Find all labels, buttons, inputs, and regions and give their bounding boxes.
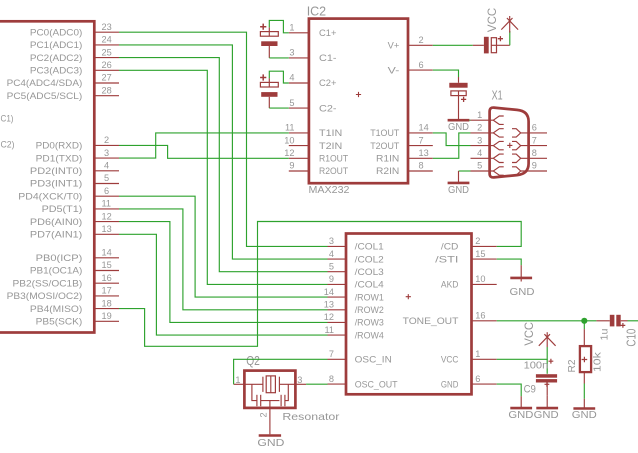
wire Q2 pin 1 to OSC_IN [234, 359, 328, 384]
svg-text:R2IN: R2IN [376, 166, 399, 176]
IC2 pin 10 T2IN [284, 135, 342, 151]
svg-text:7: 7 [419, 135, 424, 145]
svg-text:9: 9 [329, 274, 334, 284]
IC3 pin 5 /COL3 [328, 261, 384, 277]
wire PC2 to /COL3 [119, 58, 328, 272]
ground GND (below C4) [448, 96, 470, 134]
svg-text:PB3(MOSI/OC2): PB3(MOSI/OC2) [7, 291, 83, 301]
svg-text:GND: GND [510, 287, 535, 298]
svg-text:OSC_OUT: OSC_OUT [355, 379, 398, 389]
svg-text:16: 16 [102, 273, 112, 283]
svg-text:10k: 10k [591, 351, 603, 372]
IC1 pin 25 PC2(ADC2) [30, 47, 119, 63]
svg-text:14: 14 [102, 248, 112, 258]
wire C3 to VCC [509, 31, 511, 45]
svg-text:5: 5 [289, 98, 294, 108]
svg-text:3: 3 [289, 48, 294, 58]
Q2 value label Resonator [282, 412, 340, 423]
wire PD0 (RXD) to IC2 R1OUT [119, 145, 289, 158]
svg-text:24: 24 [102, 35, 112, 45]
IC2 pin 1 C1+ [289, 23, 337, 39]
svg-text:9: 9 [532, 161, 537, 171]
svg-text:PB4(MISO): PB4(MISO) [30, 304, 82, 314]
ground GND (below R2) [572, 399, 597, 421]
resonator Q2 body [244, 371, 295, 408]
svg-text:12: 12 [324, 312, 334, 322]
IC1 pin 17 PB3(MOSI/OC2) [7, 286, 119, 302]
svg-text:/ROW1: /ROW1 [355, 292, 384, 302]
svg-text:4: 4 [289, 73, 294, 83]
wire Q2 pin 3 to OSC_OUT [306, 383, 327, 385]
svg-text:1: 1 [477, 110, 482, 120]
svg-text:6: 6 [532, 123, 537, 133]
IC3 pin 14 /ROW1 [324, 287, 384, 303]
svg-text:GND: GND [572, 410, 597, 421]
svg-text:12: 12 [102, 211, 112, 221]
svg-text:10: 10 [284, 135, 294, 145]
op-amp/IC U2 MAX232 box [309, 19, 408, 184]
svg-text:/ROW4: /ROW4 [355, 330, 384, 340]
IC1 pin 4 PD2(INT0) [30, 161, 119, 177]
svg-text:C2-: C2- [319, 103, 337, 113]
capacitor C4 (V- to GND) [449, 77, 467, 102]
wire R2 to GND [583, 384, 585, 399]
svg-text:2: 2 [419, 35, 424, 45]
svg-text:VCC: VCC [485, 7, 499, 32]
svg-text:PD5(T1): PD5(T1) [42, 204, 83, 214]
IC3 pin 4 /COL2 [328, 249, 384, 265]
svg-text:/COL2: /COL2 [355, 254, 384, 264]
svg-text:Q2: Q2 [246, 354, 260, 368]
IC3 pin 3 /COL1 [328, 236, 384, 252]
wire PC3 to /COL4 [119, 70, 328, 284]
svg-text:C1+: C1+ [319, 28, 337, 38]
C9 value label 100n [524, 360, 549, 371]
wire PD7 to /ROW4 [119, 234, 328, 335]
svg-text:17: 17 [102, 286, 112, 296]
pin label C2) (cut) [1, 139, 15, 149]
svg-text:100n: 100n [524, 360, 549, 371]
svg-text:PD7(AIN1): PD7(AIN1) [30, 230, 82, 240]
IC1 pin 15 PB1(OC1A) [30, 260, 119, 276]
svg-text:5: 5 [104, 173, 109, 183]
IC3 origin cross [406, 294, 411, 299]
svg-text:26: 26 [102, 60, 112, 70]
Q2 crystal symbol [244, 376, 295, 393]
wire C1 top to IC2 pin 1 [269, 20, 289, 32]
wire junction to R2 [583, 321, 585, 329]
svg-text:T2IN: T2IN [319, 141, 342, 151]
IC3 pin 8 OSC_OUT [328, 374, 398, 390]
svg-text:8: 8 [532, 148, 537, 158]
svg-text:15: 15 [475, 249, 485, 259]
IC3 pin 9 /COL4 [328, 274, 384, 290]
svg-text:5: 5 [477, 161, 482, 171]
svg-text:Resonator: Resonator [282, 412, 340, 423]
svg-text:PB0(ICP): PB0(ICP) [36, 253, 83, 263]
Q2 reference label [246, 354, 260, 368]
IC3 pin 1 VCC [441, 349, 497, 365]
svg-text:13: 13 [102, 224, 112, 234]
X1 pin 9 [512, 161, 547, 176]
ground GND (below /STI) [510, 265, 535, 298]
svg-text:3: 3 [297, 375, 302, 385]
svg-text:13: 13 [419, 148, 429, 158]
svg-text:V-: V- [388, 65, 400, 75]
svg-text:MAX232: MAX232 [309, 185, 350, 196]
IC3 pin 10 AKD [441, 274, 497, 290]
svg-text:C10: C10 [625, 329, 638, 347]
IC1 pin 27 PC4(ADC4/SDA) [7, 73, 119, 89]
wire PD5 to /ROW2 [119, 209, 328, 310]
svg-text:2: 2 [475, 236, 480, 246]
IC1 pin 28 PC5(ADC5/SCL) [7, 85, 119, 101]
ground GND (below C9) [534, 396, 559, 421]
svg-text:6: 6 [104, 186, 109, 196]
svg-text:T1IN: T1IN [319, 128, 342, 138]
IC1 pin 16 PB2(SS/OC1B) [13, 273, 120, 289]
svg-text:PD3(INT1): PD3(INT1) [30, 179, 82, 189]
svg-text:GND: GND [257, 438, 284, 449]
svg-text:PD1(TXD): PD1(TXD) [36, 153, 83, 163]
svg-text:19: 19 [102, 311, 112, 321]
svg-text:2: 2 [477, 123, 482, 133]
IC3 DTMF decoder box [346, 234, 472, 395]
svg-text:R1IN: R1IN [376, 154, 399, 164]
svg-text:/ROW3: /ROW3 [355, 318, 384, 328]
wire C2 bottom to IC2 pin 5 [269, 97, 289, 108]
X1 reference label [492, 88, 503, 103]
wire DTMF VCC pin to VCC/C9 node [497, 347, 548, 359]
svg-text:3: 3 [477, 135, 482, 145]
svg-text:GND: GND [448, 185, 469, 196]
C10 reference label [625, 329, 638, 347]
IC1 pin 14 PB0(ICP) [36, 248, 119, 264]
X1 pin 4 [471, 148, 504, 163]
svg-text:/ROW2: /ROW2 [355, 305, 384, 315]
IC2 origin cross [356, 92, 361, 97]
svg-text:C1-: C1- [319, 53, 337, 63]
X1 pin 6 [512, 123, 547, 138]
wire IC2 T1OUT to X1 pin 3 [433, 133, 471, 146]
Q2 internal capacitors [252, 384, 288, 406]
IC2 pin 6 V- [388, 60, 433, 76]
wire IC2 pin 6 (V-) to C4 [433, 70, 459, 77]
wire TONE_OUT to junction [497, 320, 585, 322]
Q2 pin 1 [234, 375, 245, 385]
svg-text:14: 14 [324, 287, 334, 297]
svg-text:3: 3 [104, 148, 109, 158]
svg-text:/COL3: /COL3 [355, 267, 384, 277]
IC1 pin 23 PC0(ADC0) [30, 22, 119, 38]
IC3 pin 12 /ROW3 [324, 312, 384, 328]
IC3 pin 6 GND [441, 374, 497, 390]
wire IC2 pin 2 (V+) to C3 [433, 44, 473, 46]
svg-text:1u: 1u [600, 328, 611, 340]
svg-text:GND: GND [448, 122, 469, 133]
wire C10 to right edge [628, 320, 638, 322]
svg-text:R2OUT: R2OUT [319, 166, 348, 176]
X1 pin 8 [512, 148, 547, 163]
svg-text:R2: R2 [566, 359, 578, 372]
IC3 pin 13 /ROW2 [324, 300, 384, 316]
svg-text:VCC: VCC [441, 355, 459, 365]
svg-text:PD6(AIN0): PD6(AIN0) [30, 217, 82, 227]
ground GND (below Q2) [257, 436, 284, 449]
svg-text:8: 8 [329, 374, 334, 384]
svg-text:4: 4 [477, 148, 482, 158]
svg-text:8: 8 [419, 161, 424, 171]
svg-text:R1OUT: R1OUT [319, 154, 348, 164]
IC1 pin 6 PD4(XCK/T0) [18, 186, 119, 202]
wire DTMF GND pin to GND [497, 384, 522, 396]
IC2 reference label [307, 3, 326, 18]
IC3 pin 15 /STI [435, 249, 497, 265]
svg-text:C1): C1) [1, 114, 14, 124]
svg-text:IC2: IC2 [307, 3, 326, 18]
pin label C1) (cut) [1, 114, 14, 124]
svg-text:T1OUT: T1OUT [370, 128, 399, 138]
ground GND (DTMF pin 6) [508, 396, 533, 421]
svg-text:C2): C2) [1, 139, 15, 149]
capacitor C3 (V+ to VCC) [473, 36, 510, 53]
IC1 pin 3 PD1(TXD) [36, 148, 119, 164]
svg-text:6: 6 [419, 60, 424, 70]
supply VCC (top) [485, 7, 518, 32]
wire PC1 to /COL2 [119, 45, 328, 259]
IC1 pin 12 PD6(AIN0) [30, 211, 119, 227]
svg-text:/STI: /STI [435, 254, 458, 264]
capacitor C2 (IC2 charge pump, pins 4-5) [260, 74, 278, 96]
R2 reference label [566, 359, 578, 372]
IC2 pin 9 R2OUT [289, 161, 349, 177]
svg-text:25: 25 [102, 47, 112, 57]
svg-text:PC5(ADC5/SCL): PC5(ADC5/SCL) [7, 91, 83, 101]
Q2 pin 3 [295, 375, 306, 385]
C10 value label 1u [600, 328, 611, 340]
X1 pin 7 [512, 135, 547, 150]
svg-text:PB5(SCK): PB5(SCK) [36, 317, 83, 327]
svg-text:PC3(ADC3): PC3(ADC3) [30, 66, 82, 76]
IC1 microcontroller box [0, 21, 94, 332]
svg-text:/COL1: /COL1 [355, 242, 384, 252]
svg-text:13: 13 [324, 300, 334, 310]
svg-text:6: 6 [475, 374, 480, 384]
IC1 pin 11 PD5(T1) [42, 199, 119, 215]
IC1 pin 5 PD3(INT1) [30, 173, 119, 189]
svg-text:1: 1 [289, 23, 294, 33]
svg-text:V+: V+ [388, 41, 400, 51]
Q2 pin 2 [258, 401, 270, 435]
IC2 pin 5 C2- [289, 98, 337, 114]
svg-text:GND: GND [508, 410, 533, 421]
X1 origin cross [507, 143, 512, 148]
C9 reference label [524, 384, 536, 396]
wire C1 bottom to IC2 pin 3 [269, 46, 289, 58]
svg-text:7: 7 [532, 135, 537, 145]
IC2 pin 4 C2+ [289, 73, 337, 89]
IC1 pin 24 PC1(ADC1) [30, 35, 119, 51]
svg-text:9: 9 [289, 161, 294, 171]
junction node TONE_OUT/R2/C10 [581, 318, 587, 324]
svg-text:18: 18 [102, 298, 112, 308]
IC3 pin 16 TONE_OUT [403, 311, 497, 327]
svg-text:PC1(ADC1): PC1(ADC1) [30, 40, 82, 50]
svg-text:16: 16 [475, 311, 485, 321]
svg-text:PD0(RXD): PD0(RXD) [36, 141, 83, 151]
wire PD1 (TXD) to IC2 T1IN [119, 133, 289, 158]
IC2 pin 8 R2IN [376, 161, 433, 177]
svg-text:C9: C9 [524, 384, 536, 396]
capacitor C10 1u [596, 315, 627, 328]
IC3 pin 2 /CD [441, 236, 497, 252]
resistor R2 10k [580, 329, 591, 383]
IC2 pin 3 C1- [289, 48, 337, 64]
wire /STI to GND [497, 259, 522, 265]
svg-text:/CD: /CD [441, 242, 459, 252]
svg-text:X1: X1 [492, 88, 503, 103]
wire PD6 to /ROW3 [119, 222, 328, 323]
svg-text:14: 14 [419, 123, 429, 133]
X1 pin 1 [471, 110, 504, 125]
svg-text:7: 7 [329, 349, 334, 359]
IC2 pin 13 R1IN [376, 148, 433, 164]
IC1 pin 18 PB4(MISO) [30, 298, 119, 314]
IC3 pin 7 OSC_IN [328, 349, 392, 365]
svg-text:3: 3 [329, 236, 334, 246]
IC2 pin 14 T1OUT [370, 123, 433, 139]
svg-text:27: 27 [102, 73, 112, 83]
wire X1 pin 5 to GND [459, 170, 471, 172]
X1 pin 5 [471, 161, 504, 176]
svg-text:GND: GND [534, 410, 559, 421]
wire X1 pin 1 to GND node [469, 119, 470, 121]
svg-text:PD2(INT0): PD2(INT0) [30, 166, 82, 176]
svg-text:11: 11 [324, 325, 334, 335]
ground GND (below X1 pin 5) [448, 171, 470, 196]
svg-text:OSC_IN: OSC_IN [355, 355, 392, 365]
svg-text:PC0(ADC0): PC0(ADC0) [30, 27, 82, 37]
IC1 pin 19 PB5(SCK) [36, 311, 119, 327]
svg-text:C2+: C2+ [319, 78, 337, 88]
R2 value label 10k [591, 351, 603, 372]
svg-text:28: 28 [102, 85, 112, 95]
capacitor C9 100n [536, 359, 557, 396]
svg-text:PB1(OC1A): PB1(OC1A) [30, 266, 82, 276]
svg-text:23: 23 [102, 22, 112, 32]
svg-text:1: 1 [475, 349, 480, 359]
wire IC2 R1IN to X1 pin 2 [433, 133, 471, 158]
svg-text:4: 4 [329, 249, 334, 259]
IC2 pin 11 T1IN [285, 123, 342, 139]
svg-text:PD4(XCK/T0): PD4(XCK/T0) [18, 191, 82, 201]
svg-text:15: 15 [102, 260, 112, 270]
X1 pin 2 [471, 123, 504, 138]
svg-text:5: 5 [329, 261, 334, 271]
wire VCC node to C9 [546, 359, 548, 374]
svg-text:AKD: AKD [441, 280, 459, 290]
wire PB4 (MISO) to /CD [119, 222, 521, 347]
svg-text:PB2(SS/OC1B): PB2(SS/OC1B) [13, 278, 83, 288]
wire C2 top to IC2 pin 4 [269, 71, 289, 83]
svg-text:T2OUT: T2OUT [370, 141, 399, 151]
wire PD4 to /ROW1 [119, 196, 328, 297]
IC1 pin 2 PD0(RXD) [36, 135, 119, 151]
svg-text:PC4(ADC4/SDA): PC4(ADC4/SDA) [7, 78, 83, 88]
X1 pin 3 [471, 135, 504, 150]
svg-text:2: 2 [258, 412, 268, 417]
IC2 pin 2 V+ [388, 35, 433, 51]
svg-text:VCC: VCC [522, 322, 536, 346]
svg-text:TONE_OUT: TONE_OUT [403, 316, 459, 326]
svg-text:GND: GND [441, 379, 459, 389]
IC3 pin 11 /ROW4 [324, 325, 383, 341]
IC2 pin 7 T2OUT [370, 135, 433, 151]
IC2 value label MAX232 [309, 185, 350, 196]
IC2 pin 12 R1OUT [284, 148, 348, 164]
capacitor C1 (IC2 charge pump, pins 1-3) [260, 24, 278, 46]
connector X1 body [490, 108, 529, 178]
svg-text:4: 4 [104, 161, 109, 171]
svg-text:1: 1 [235, 375, 240, 385]
wire junction to C10 [584, 320, 596, 322]
svg-text:2: 2 [104, 135, 109, 145]
svg-text:12: 12 [284, 148, 294, 158]
svg-text:/COL4: /COL4 [355, 280, 384, 290]
IC1 pin 13 PD7(AIN1) [30, 224, 119, 240]
IC1 pin 26 PC3(ADC3) [30, 60, 119, 76]
wire PC0 to /COL1 [119, 32, 328, 246]
svg-text:11: 11 [102, 199, 112, 209]
svg-text:PC2(ADC2): PC2(ADC2) [30, 53, 82, 63]
svg-text:11: 11 [285, 123, 295, 133]
supply VCC (DTMF) [522, 322, 556, 347]
svg-text:10: 10 [475, 274, 485, 284]
